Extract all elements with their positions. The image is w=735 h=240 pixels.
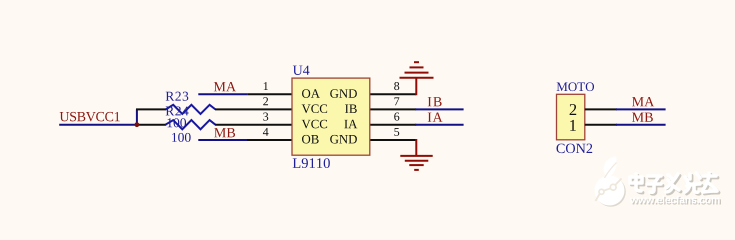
label R24 designator bbox=[166, 106, 189, 115]
pin number 2 bbox=[263, 97, 268, 105]
IC U4 body bbox=[292, 78, 370, 155]
junction bbox=[135, 122, 140, 127]
wire branch vertical bbox=[136, 109, 138, 125]
pin number 5 bbox=[394, 128, 399, 136]
net label MA right bbox=[632, 97, 654, 106]
label MOTO bbox=[557, 82, 594, 91]
ground top (pin 8) bbox=[400, 62, 434, 95]
wire MA right bbox=[616, 108, 666, 110]
pin name OB bbox=[302, 135, 319, 144]
watermark chinese text bbox=[630, 173, 719, 194]
resistor R24 bbox=[136, 120, 215, 129]
watermark url text bbox=[630, 196, 721, 205]
wire MB bbox=[198, 139, 247, 141]
IC U4 pins right bbox=[370, 94, 416, 140]
pin name GND bottom bbox=[330, 135, 357, 144]
net label MB right bbox=[632, 113, 653, 122]
label R23 value 100 bbox=[167, 118, 186, 127]
label CON2 designator bbox=[556, 144, 592, 154]
label L9110 value bbox=[293, 158, 330, 168]
wire MB right bbox=[616, 124, 666, 126]
ground bottom (pin 5) bbox=[400, 139, 432, 170]
pin name VCC 2 bbox=[302, 104, 327, 113]
pin name VCC 3 bbox=[302, 120, 327, 129]
net label MA left bbox=[214, 82, 236, 91]
pin number 4 bbox=[263, 128, 269, 136]
net label IB bbox=[428, 97, 442, 106]
pin number 1 bbox=[264, 82, 268, 90]
pin number 3 bbox=[263, 113, 268, 121]
CON2 pin number 2 bbox=[570, 104, 577, 115]
label U4 designator bbox=[293, 66, 310, 75]
watermark logo circle bbox=[595, 156, 626, 207]
label R24 value 100 bbox=[172, 133, 191, 142]
pin number 6 bbox=[394, 113, 399, 121]
label R23 designator bbox=[166, 92, 189, 101]
IC U4 pins left bbox=[215, 94, 292, 140]
wire IB bbox=[415, 108, 463, 110]
resistor R23 bbox=[136, 105, 215, 114]
net label USBVCC1 bbox=[60, 112, 120, 121]
pin name IB bbox=[345, 105, 357, 113]
CON2 pin number 1 bbox=[570, 120, 576, 131]
pin name OA bbox=[302, 89, 320, 98]
CON2 pin 2 line bbox=[585, 108, 617, 110]
pin number 7 bbox=[394, 97, 399, 105]
net label IA bbox=[428, 112, 443, 121]
pin name IA bbox=[344, 120, 357, 128]
pin number 8 bbox=[394, 82, 399, 90]
net label MB left bbox=[214, 128, 235, 137]
wire MA bbox=[198, 93, 247, 95]
pin name GND top bbox=[330, 89, 357, 98]
connector CON2 body bbox=[557, 94, 585, 140]
wire IA bbox=[415, 124, 463, 126]
CON2 pin 1 line bbox=[585, 124, 617, 126]
wire USBVCC1 net bbox=[59, 124, 137, 126]
